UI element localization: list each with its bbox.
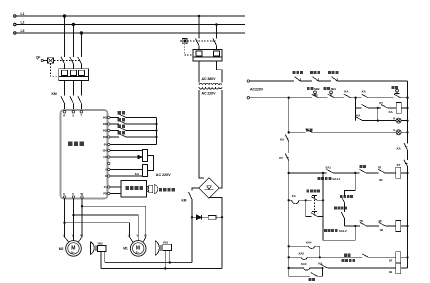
label blob 转换开关 SA1.1 <box>318 177 332 180</box>
wire YB2 lead b <box>104 252 106 263</box>
label blob SB3 <box>391 86 398 89</box>
svg-text:KA: KA <box>344 89 349 93</box>
button start SB1 <box>328 91 335 98</box>
label blob 联锁保护 <box>328 71 338 74</box>
node lamp2 rail <box>406 131 408 133</box>
node rail L3 rung <box>288 267 290 269</box>
svg-text:1B: 1B <box>389 270 392 274</box>
wire 0V common <box>110 118 157 145</box>
rung lamp R <box>356 108 397 121</box>
node 323 rung1 <box>322 199 324 201</box>
node junction L3 drop <box>80 32 83 35</box>
potentiometer RP <box>110 150 154 171</box>
svg-text:KM: KM <box>182 199 187 203</box>
mechanical link dashed <box>313 196 315 215</box>
terminal R <box>63 111 66 114</box>
coil KT <box>396 221 401 232</box>
node IN3 join <box>155 129 157 131</box>
node L2 terminal <box>14 23 16 25</box>
svg-text:L3: L3 <box>21 29 25 33</box>
button emergency SB3 <box>394 89 401 98</box>
label braking unit blob 制动单元 <box>126 186 143 190</box>
breaker QF pole 1 <box>61 57 82 69</box>
node IN4 join <box>155 136 157 138</box>
wire P+ lead <box>110 186 121 188</box>
svg-text:R: R <box>393 116 395 120</box>
rung brake coil 1B <box>289 264 396 270</box>
label blob 上升 rung <box>359 165 366 168</box>
label blob 转换开关 SA1.2 <box>324 229 338 232</box>
contactor KM pole 1 <box>61 96 81 110</box>
node L2 tap middle <box>215 23 218 26</box>
node YB1 inner join <box>169 261 171 263</box>
svg-text:V: V <box>72 233 74 237</box>
svg-text:KT: KT <box>379 101 383 105</box>
wire top rail <box>250 80 408 82</box>
label blob 停止 SB2 <box>307 87 314 90</box>
lamp HL2 <box>396 130 407 135</box>
breaker QF2 pole 1 <box>196 39 217 50</box>
wire FU1 to KM c <box>80 80 82 95</box>
fuse block FU1 <box>59 69 89 81</box>
wire left sub rail <box>288 98 290 277</box>
svg-text:KA: KA <box>389 110 394 114</box>
label blob 运行 <box>306 128 313 131</box>
node rung KA mid <box>377 107 379 109</box>
svg-text:KA: KA <box>362 89 367 93</box>
contactor KM pole 3 <box>78 96 82 110</box>
svg-text:KA: KA <box>397 147 402 151</box>
svg-text:IN3: IN3 <box>103 129 107 133</box>
node IN2 join <box>155 123 157 125</box>
svg-text:KA: KA <box>280 137 285 141</box>
wire PB lead <box>110 193 121 195</box>
brake coil YB1 <box>163 244 172 250</box>
svg-text:0V: 0V <box>104 143 107 147</box>
coil 1B <box>396 263 401 274</box>
svg-text:AC 220V: AC 220V <box>156 173 171 177</box>
label blob 抱闸 <box>344 254 351 257</box>
node L1 terminal <box>14 15 16 17</box>
node lamp1 rail <box>406 120 408 122</box>
contact NC rail KT <box>404 160 408 167</box>
node rail2 mid tap <box>354 97 356 99</box>
svg-text:KA3: KA3 <box>301 262 307 266</box>
node timer mid <box>305 199 307 201</box>
relay coil KA output <box>110 165 148 177</box>
label blob 限位 L3 <box>342 259 356 262</box>
breaker QF pole 2 <box>70 57 74 69</box>
coil KA <box>396 103 401 114</box>
wire YB1 lead a <box>164 250 166 268</box>
node rung226 355 <box>354 225 356 227</box>
svg-text:U: U <box>128 233 130 237</box>
wire YB1 lead b <box>169 250 171 262</box>
svg-text:S: S <box>72 114 74 118</box>
node left rail lamp2 tap <box>288 131 290 133</box>
wire W drop <box>78 198 82 242</box>
svg-text:QF: QF <box>36 56 40 60</box>
wire rail2 <box>250 94 408 98</box>
breaker QF pole 3 <box>78 57 82 69</box>
node U branch <box>63 222 65 224</box>
node coil KT rail <box>406 225 408 227</box>
terminal control N <box>247 97 249 99</box>
resistor R brake <box>208 215 222 219</box>
wire FU1 to KM a <box>64 80 66 95</box>
svg-text:L2: L2 <box>21 20 25 24</box>
svg-text:7R: 7R <box>378 165 381 169</box>
svg-text:KT: KT <box>279 156 283 160</box>
label blob 下降限位 <box>334 207 347 210</box>
transformer TC primary <box>199 83 222 89</box>
wire L3 line <box>16 32 245 34</box>
breaker QF2 pole 2 <box>213 39 217 50</box>
svg-text:SA1: SA1 <box>325 165 331 169</box>
node L2 319 <box>319 256 321 258</box>
node L3 322 <box>321 267 323 269</box>
rung KA coil <box>356 104 397 108</box>
rung KA2 timer top <box>289 195 323 203</box>
svg-text:KA4: KA4 <box>306 240 312 244</box>
contact KA hold <box>344 94 351 98</box>
wire U drop <box>65 198 83 242</box>
switch on IN2 (down) <box>110 121 157 125</box>
contact NC rail KA <box>404 143 408 150</box>
svg-text:KA2: KA2 <box>299 251 305 255</box>
wire bridge bottom output <box>209 198 222 269</box>
svg-text:R: R <box>63 114 65 118</box>
svg-text:7R: 7R <box>359 219 362 223</box>
label blob 启动 SB1 <box>323 87 330 90</box>
fuse block FU2 <box>193 50 222 62</box>
wire sub vertical 355 <box>355 98 357 121</box>
contact left rail KT <box>285 154 289 161</box>
inverter bottom terminals U V W <box>63 196 83 198</box>
svg-text:M1: M1 <box>123 246 128 250</box>
brake coil YB2 <box>97 245 106 251</box>
rectifier bridge VC <box>199 178 220 198</box>
wire coil KA1 to rail <box>401 172 408 174</box>
svg-text:U: U <box>63 233 65 237</box>
wire phase A drop <box>64 16 66 57</box>
svg-text:KA: KA <box>356 113 360 117</box>
wire coil 1R rail <box>401 256 408 258</box>
wire coil 1B rail <box>401 267 408 269</box>
svg-text:1B: 1B <box>379 228 382 232</box>
svg-text:SB1: SB1 <box>331 87 337 91</box>
svg-text:V: V <box>137 233 139 237</box>
wire under loop <box>323 216 355 240</box>
svg-text:YB1: YB1 <box>163 240 169 244</box>
wire L2 line <box>16 24 245 26</box>
wire L1 line <box>16 15 245 17</box>
svg-text:KA: KA <box>135 172 140 176</box>
node left rail KA2 rung <box>288 199 290 201</box>
svg-text:SB2: SB2 <box>314 87 320 91</box>
node diode branch left <box>191 216 193 218</box>
svg-text:V: V <box>105 168 107 172</box>
brake drum YB1 <box>155 241 161 255</box>
connector to braking resistor <box>147 185 158 194</box>
inverter right terminals <box>108 116 110 194</box>
wire control drop a <box>198 16 200 39</box>
node SA rung mid <box>354 172 356 174</box>
contact NC QS1 <box>295 77 338 81</box>
wire 355 to limit chain <box>345 173 356 196</box>
contact NC KA0 <box>332 77 338 81</box>
node coil KA1 rail <box>406 172 408 174</box>
node L3 terminal <box>14 32 16 34</box>
node junction L1 drop <box>63 15 66 18</box>
node SA rung 323 <box>322 172 324 174</box>
wire YB2 lead a <box>100 252 102 269</box>
svg-text:AC220V: AC220V <box>250 88 264 92</box>
contact NC FR <box>313 77 319 81</box>
svg-text:KT: KT <box>397 163 401 167</box>
coil 1R <box>396 252 401 263</box>
rung brake coil 1R <box>289 254 396 260</box>
svg-text:3~: 3~ <box>71 251 75 255</box>
rung SA1.1 <box>289 169 396 173</box>
rung SA1.2 coils <box>345 222 396 226</box>
wire secondary left <box>199 90 204 178</box>
wire branch to M1 U <box>65 223 134 243</box>
node V branch <box>72 214 74 216</box>
svg-text:YB2: YB2 <box>97 242 103 246</box>
label braking resistor blob 制动电阻 <box>159 188 175 191</box>
svg-text:P+: P+ <box>104 185 108 189</box>
coil KA1 <box>396 167 401 178</box>
rung KA4 <box>289 246 320 257</box>
wire branch to M1 V <box>74 215 139 240</box>
terminal T <box>80 111 83 114</box>
svg-text:KM: KM <box>52 92 57 96</box>
svg-text:K: K <box>105 174 107 178</box>
switch on IN3 <box>110 127 157 131</box>
wire V drop <box>73 198 75 240</box>
node coil KA rail <box>406 107 408 109</box>
svg-text:KA: KA <box>292 194 296 198</box>
svg-text:G: G <box>393 128 395 132</box>
svg-text:IN2: IN2 <box>103 122 107 126</box>
node rail L1 rung <box>288 245 290 247</box>
node YB1 outer join <box>164 267 166 269</box>
label switch2 blob 下降 <box>118 118 125 121</box>
labels M2 leads U V W <box>63 233 84 237</box>
breaker QF2 operator <box>180 38 216 55</box>
contact left rail KA <box>285 134 289 141</box>
node rail L2 rung <box>288 256 290 258</box>
lamp HL1 <box>396 118 407 123</box>
node SA rung left <box>288 172 290 174</box>
svg-text:V: V <box>72 192 74 196</box>
svg-text:AC 380V: AC 380V <box>202 77 217 81</box>
rung parallel bottom <box>289 268 323 276</box>
wire outer dc bus <box>101 268 222 270</box>
contact limit up <box>341 196 344 212</box>
terminal S <box>72 111 75 114</box>
rung lamp G <box>289 129 396 133</box>
button stop SB2 <box>312 91 319 98</box>
motor M1 <box>130 241 146 257</box>
wire FU1 to KM b <box>72 80 74 95</box>
node rail2 left tap <box>288 97 290 99</box>
label blob 上升限位 <box>340 195 353 198</box>
breaker QF operator <box>41 58 81 76</box>
label blob 电源开关 <box>293 71 303 74</box>
motor M2 <box>66 241 82 257</box>
label switch4 blob 低速 <box>118 131 125 134</box>
node rail2 right end <box>406 97 408 99</box>
contact KM brake <box>189 192 192 263</box>
label blob timer 240 <box>306 189 320 192</box>
wire phase C drop <box>80 33 82 57</box>
wire branch to M1 W <box>65 206 146 242</box>
svg-text:KA: KA <box>318 261 322 265</box>
wire secondary right <box>219 90 222 188</box>
node junction L2 drop <box>72 23 75 26</box>
wire inner dc bus <box>105 262 192 264</box>
node W branch <box>81 205 83 207</box>
svg-text:M2: M2 <box>59 247 64 251</box>
label blob 热继电器 <box>310 71 320 74</box>
contact limit down <box>341 212 344 226</box>
labels inverter terminals <box>102 116 107 196</box>
svg-text:L1: L1 <box>21 12 25 16</box>
wire vertical 323 <box>322 173 324 216</box>
svg-text:AC 220V: AC 220V <box>202 92 217 96</box>
wire coil KT rail <box>401 225 408 227</box>
svg-text:W: W <box>81 192 84 196</box>
labels U V W inside box <box>63 192 84 196</box>
wire FU2 to transformer a <box>198 61 200 83</box>
svg-text:T: T <box>80 114 82 118</box>
wire timer drop <box>305 200 307 216</box>
svg-text:SA1.1: SA1.1 <box>332 177 340 181</box>
label switch3 blob 高速 <box>118 124 125 127</box>
switch on IN4 <box>110 134 157 138</box>
contactor KM pole 2 <box>70 96 74 110</box>
transformer TC secondary <box>199 87 222 89</box>
svg-text:IN1: IN1 <box>103 116 107 120</box>
node diode branch right <box>221 216 223 218</box>
svg-text:U: U <box>63 192 65 196</box>
wire control drop b <box>216 25 218 39</box>
node lamp rung <box>377 120 379 122</box>
svg-text:IN4: IN4 <box>103 135 107 139</box>
inverter box U1 <box>61 110 108 199</box>
svg-text:PB: PB <box>103 192 107 196</box>
diode VD <box>192 215 208 220</box>
label inverter 变频器 blob <box>68 141 84 146</box>
svg-text:SA1.2: SA1.2 <box>339 229 347 233</box>
wire bridge left output <box>192 188 199 191</box>
svg-text:AI1: AI1 <box>103 155 107 159</box>
switch on IN1 (up) <box>110 114 157 145</box>
brake drum YB2 <box>90 242 96 255</box>
rung timer bottom <box>306 212 323 217</box>
wire coil KA to rail <box>401 107 407 109</box>
node L1 tap middle <box>198 15 201 18</box>
labels M1 leads U V W <box>128 233 147 237</box>
terminal control L <box>247 80 249 82</box>
svg-text:10V: 10V <box>102 149 107 153</box>
wire right rail <box>407 81 409 268</box>
svg-text:W: W <box>80 233 83 237</box>
svg-text:3R: 3R <box>379 178 382 182</box>
svg-text:1R: 1R <box>389 259 392 263</box>
label blob parallel KA <box>309 278 316 281</box>
svg-text:W: W <box>144 233 147 237</box>
svg-text:3~: 3~ <box>136 251 140 255</box>
braking unit box <box>121 181 147 198</box>
node coil 1R rail <box>406 256 408 258</box>
wire phase B drop <box>72 25 74 58</box>
label switch1 blob 上升 <box>118 111 125 114</box>
wire FU2 to transformer b jog <box>217 61 223 83</box>
svg-text:1R: 1R <box>378 219 381 223</box>
